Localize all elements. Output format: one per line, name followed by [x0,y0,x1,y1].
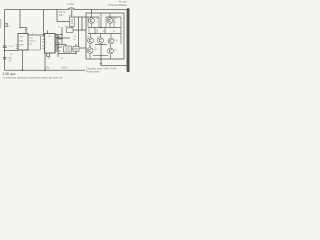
scan edge mark [0,19,2,28]
wire: mesh horizontal y38 [56,37,70,39]
wire: left edge line [4,10,6,71]
wire: mesh vertical x66 [65,45,67,47]
svg-text:8: 8 [56,46,57,48]
junction dot above U2 [43,34,44,35]
crystal X1 between U1 and U2 [28,31,41,50]
module box (output stage) [86,13,124,59]
wire: module emitter cross links [93,45,108,56]
IC U2 [43,34,56,54]
small component box B2 [67,28,74,33]
wire: input horizontal stub [20,27,27,29]
wire: rail to module top [91,10,93,14]
junction dot rail U1 [22,70,24,72]
wire: U2 bottom lead to ground rail [44,53,46,70]
svg-text:1k: 1k [113,31,115,33]
capacitor C3 blob on left edge [5,23,12,27]
svg-text:Is dotormoo obohooto ovtoprood: Is dotormoo obohooto ovtoproodr oorotm p… [3,76,62,79]
wire: U2 bottom stubs [47,53,50,57]
pin numbers right of U2 [56,34,57,52]
wire: U2 right pin 9 [55,50,60,52]
resistor R1 bump on supply rail [67,3,75,9]
component box C marks [65,48,70,50]
transistor Q4 [98,38,104,44]
wire: U2 right pin 6 [55,44,58,46]
wire: mesh horizontal y34.5 [54,34,62,36]
wire: U2 right pin 5 [55,42,60,44]
transistor Q6 [87,48,93,54]
svg-text:5: 5 [43,41,44,43]
wire: mesh vertical x58 [57,35,59,54]
transistor Q2 [107,18,113,24]
junction dot left y50.5 [4,50,5,51]
svg-text:2: 2 [56,34,57,36]
transistor Q7 [108,48,114,54]
svg-text:1: 1 [14,48,15,50]
junction dot mesh2 [57,47,59,49]
wire: vertical above U2 [43,10,45,36]
svg-text:2: 2 [14,45,15,47]
wire: drop from rail at C2 [56,10,58,22]
small component box B1 [70,17,75,27]
svg-text:6: 6 [45,47,46,49]
wire: U2 right pin 8 [55,48,58,50]
wire: vertical into U1 [25,29,27,34]
wire: U1 to U2 link [28,34,45,36]
svg-text:1k: 1k [103,31,105,33]
wire: bottom right return wire [101,65,127,67]
wire: module internal verticals mid [90,24,111,48]
wire: module inter-row links [95,28,105,34]
svg-text:C1 1u: C1 1u [8,46,15,48]
junction dot module b [94,33,95,34]
wire: B1 to B2 link [71,27,73,28]
svg-text:8: 8 [45,41,46,43]
svg-text:4.7Ωm: 4.7Ωm [67,3,74,6]
wire: module internal horizontal y17 [86,16,121,18]
wire: left input horizontal y50.5 [5,50,19,52]
transistor Q5 [108,38,114,44]
svg-text:[4]: [4] [30,43,33,45]
wire: box C to box D link [72,48,74,50]
svg-text:6: 6 [56,42,57,44]
wire: mesh horizontal y48 to module [79,47,86,49]
wire: ground bottom rail [5,69,86,71]
wire: module internal top verticals [92,13,111,28]
wire: bus vertical a [78,17,80,48]
svg-text:7: 7 [43,47,44,49]
wire: mesh stub below [57,54,59,58]
wire: module internal horizontal y27.5 [88,27,121,29]
scan edge dark band right [127,8,130,72]
capacitor C1 on left edge [3,46,15,48]
small component box C [64,46,72,52]
wire: module right side vertical [120,17,122,44]
junction dot module bottom edge [100,58,101,59]
wire: B+ top supply rail [5,9,128,11]
wire: U2 right pin 3 [55,38,62,40]
ground arrowhead below module [100,63,102,65]
wire: bus horizontal top [74,16,86,18]
svg-text:10n: 10n [59,14,64,17]
svg-text:9: 9 [45,39,46,41]
small component box D [73,47,79,52]
wire: mesh horizontal y44.5 [54,44,66,46]
svg-text:DTL/anw/Medw: DTL/anw/Medw [108,3,126,7]
svg-text:rx: rx [115,22,117,24]
svg-text:rx: rx [96,22,98,24]
wire: right edge line [126,10,128,71]
wire: drop from rail to input node [19,10,21,28]
svg-text:Axgrev: Axgrev [30,39,38,42]
wire: U1 bottom lead to ground rail [22,50,24,70]
wire: module bottom lead [100,59,102,66]
node dot input [19,27,21,29]
svg-text:4Ωτ: 4Ωτ [46,66,50,69]
svg-text:1: 1 [56,50,57,52]
component B1 marks [71,20,73,24]
wire: rail drop to B1 [71,10,73,18]
wire: mesh vertical x76 [75,44,77,54]
junction dot mesh [61,37,63,39]
svg-text:+: + [32,31,34,35]
input arrow above U1 [25,28,28,31]
wire: U2 right pin 1 [55,34,58,36]
wire: mesh vertical x62 [61,27,63,44]
transistor Q3 [88,38,94,44]
wire: U2 right pin 2 [55,36,60,38]
IC U1 [14,34,28,51]
paper background [0,0,130,81]
svg-text:AΩTn: AΩTn [62,66,69,69]
pin numbers left of U2 [43,35,44,49]
svg-text:1u]: 1u] [30,37,33,39]
component D marks [74,48,77,50]
wire: stub above U2 [47,31,49,34]
wire: horizontal to coupling stage [57,21,70,23]
wire: module bias stubs row [89,29,97,34]
wire: module internal horizontal y33.5 [88,33,121,35]
svg-text:7: 7 [45,44,46,46]
svg-text:anm: anm [19,44,24,46]
svg-text:Ported tapes: Ported tapes [86,70,100,73]
junction dot module c [100,55,101,56]
junction dot mesh4 [75,53,76,54]
junction dot module a [100,27,101,28]
junction dot mesh3 [61,34,62,35]
svg-text:rrgt: rrgt [19,40,23,43]
wire: module base feed verticals [88,17,114,28]
wire: bus vertical b [81,17,83,30]
capacitor C5 on left edge lower [3,57,12,63]
svg-text:1at: 1at [74,35,77,38]
junction dot rail U2 [44,70,46,72]
transistor Q1 [89,18,95,24]
wire: mesh horizontal y53.5 [58,53,76,55]
svg-text:5: 5 [45,50,46,52]
wire: module internal bottom verticals [90,44,111,59]
wire: module mid input [73,29,86,31]
svg-text:4: 4 [56,38,57,40]
junction dot bus x82 [81,29,82,30]
wire: U2 right pin 7 [55,46,62,48]
wire: U2 right pin 4 [55,40,58,42]
